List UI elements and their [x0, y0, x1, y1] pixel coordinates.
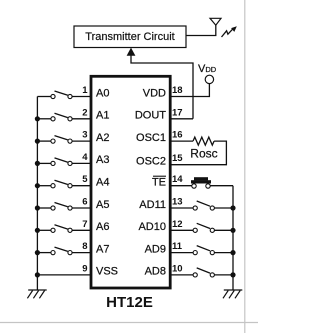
switch S9 (AD11) — [170, 201, 233, 210]
wire pin14 TE stub — [170, 185, 192, 187]
wire pin16 OSC1 stub — [170, 140, 193, 142]
svg-text:VDD: VDD — [143, 87, 166, 99]
svg-text:DOUT: DOUT — [135, 110, 166, 122]
wire pin17 DOUT stub — [170, 118, 193, 120]
node VDD terminal circle — [205, 75, 213, 83]
svg-text:A6: A6 — [96, 221, 109, 233]
switch S12 (AD8) — [170, 268, 233, 277]
svg-text:A0: A0 — [96, 87, 109, 99]
table border horizontal gray line — [0, 322, 258, 324]
wire VDD terminal to pin 18 — [170, 84, 209, 97]
table border vertical gray line — [244, 0, 246, 333]
IC U1 HT12E body — [91, 76, 170, 288]
svg-text:Transmitter Circuit: Transmitter Circuit — [85, 31, 174, 43]
svg-text:9: 9 — [82, 263, 87, 274]
right bus wire — [232, 186, 234, 290]
svg-text:3: 3 — [82, 130, 87, 141]
junction dot right bus pin11 — [230, 250, 235, 255]
svg-text:6: 6 — [82, 197, 87, 208]
svg-text:AD8: AD8 — [145, 266, 166, 278]
svg-text:A5: A5 — [96, 199, 109, 211]
svg-text:12: 12 — [172, 219, 183, 230]
antenna ANT1 — [210, 18, 221, 25]
switch S7 (A6) — [37, 225, 91, 233]
svg-text:14: 14 — [172, 174, 183, 185]
junction dot right bus pin13 — [230, 205, 235, 210]
junction dot left bus pin5 — [35, 183, 40, 188]
svg-text:A2: A2 — [96, 132, 109, 144]
svg-text:1: 1 — [82, 85, 88, 96]
svg-text:AD9: AD9 — [145, 243, 166, 255]
svg-text:TE: TE — [152, 177, 166, 189]
svg-text:A4: A4 — [96, 177, 109, 189]
junction dot left bus pin2 — [35, 116, 40, 121]
wire pin9 VSS to left bus — [37, 274, 91, 276]
wire DOUT to transmitter (with arrow) — [131, 53, 193, 119]
transmitter circuit block — [74, 26, 186, 48]
svg-text:11: 11 — [172, 241, 183, 252]
svg-text:A7: A7 — [96, 243, 109, 255]
svg-text:18: 18 — [172, 85, 183, 96]
svg-text:A1: A1 — [96, 110, 109, 122]
junction dot right bus pin10 — [230, 272, 235, 277]
svg-text:4: 4 — [82, 152, 88, 163]
switch S10 (AD10) — [170, 223, 233, 232]
switch S2 (A1) — [37, 113, 91, 121]
svg-text:16: 16 — [172, 130, 183, 141]
junction dot left bus pin3 — [35, 139, 40, 144]
ground left — [27, 290, 46, 298]
switch S6 (A5) — [37, 203, 91, 211]
left bus wire — [36, 97, 38, 290]
svg-text:A3: A3 — [96, 154, 109, 166]
svg-text:OSC1: OSC1 — [136, 132, 166, 144]
svg-text:7: 7 — [82, 219, 87, 230]
svg-text:17: 17 — [172, 107, 183, 118]
wire push button to right bus — [210, 185, 233, 187]
resistor Rosc — [193, 137, 214, 145]
svg-text:OSC2: OSC2 — [136, 155, 166, 167]
junction dot right bus pin12 — [230, 228, 235, 233]
svg-text:5: 5 — [82, 174, 88, 185]
svg-text:2: 2 — [82, 107, 87, 118]
arrowhead into transmitter — [127, 48, 136, 56]
switch S1 (A0) — [37, 91, 91, 99]
junction dot left bus pin9 — [35, 272, 40, 277]
switch S5 (A4) — [37, 180, 91, 188]
svg-text:13: 13 — [172, 197, 183, 208]
svg-text:10: 10 — [172, 263, 183, 274]
svg-text:HT12E: HT12E — [106, 294, 153, 311]
wire transmitter output to antenna — [186, 25, 216, 36]
svg-text:AD10: AD10 — [138, 221, 166, 233]
wire Rosc to OSC2 — [170, 141, 226, 165]
svg-text:VDD: VDD — [198, 63, 217, 75]
junction dot left bus pin4 — [35, 161, 40, 166]
junction dot left bus pin8 — [35, 250, 40, 255]
svg-text:VSS: VSS — [96, 266, 118, 278]
switch S3 (A2) — [37, 136, 91, 144]
svg-text:Rosc: Rosc — [190, 146, 217, 160]
svg-text:15: 15 — [172, 153, 183, 164]
svg-text:AD11: AD11 — [139, 199, 166, 211]
switch S11 (AD9) — [170, 246, 233, 255]
ground right — [223, 290, 242, 298]
svg-text:8: 8 — [82, 241, 87, 252]
RF radiation arrow — [222, 26, 237, 37]
switch S8 (A7) — [37, 247, 91, 255]
switch S4 (A3) — [37, 158, 91, 166]
junction dot left bus pin7 — [35, 228, 40, 233]
junction dot left bus pin6 — [35, 205, 40, 210]
push button SW1 contacts — [191, 177, 211, 188]
